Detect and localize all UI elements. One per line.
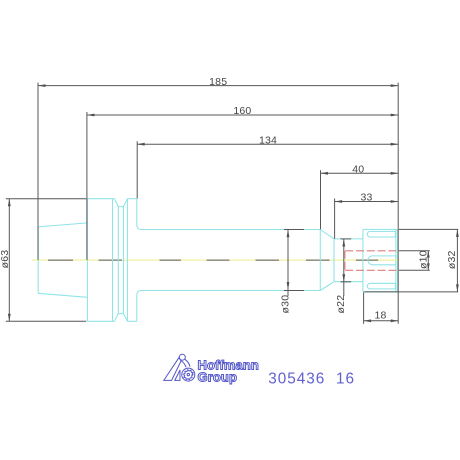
dimension 134 — [137, 135, 398, 147]
svg-text:185: 185 — [209, 76, 227, 88]
body outline: o22 neck — [334, 239, 363, 282]
dimension o10 — [399, 250, 430, 270]
body outline: flange face — [86, 199, 88, 322]
extension line 185 — [37, 83, 39, 260]
body outline: V-groove notches — [114, 199, 127, 322]
extension line 134 — [136, 141, 138, 198]
Hoffmann Group logo figure — [164, 354, 195, 381]
dimension 33 — [335, 192, 399, 204]
centerline gray dashes — [48, 259, 378, 261]
body outline: flange top and bottom edges — [87, 199, 136, 322]
body outline: cylinder o30 — [142, 230, 321, 291]
body outline: groove silhouette verticals — [113, 199, 128, 322]
svg-text:16: 16 — [336, 370, 355, 387]
dimension 40 — [321, 164, 399, 176]
extension line common right — [397, 83, 399, 324]
extension line 160 — [86, 112, 88, 260]
part number 305436 16 — [268, 370, 355, 387]
dimension o32 — [364, 229, 459, 292]
svg-text:134: 134 — [259, 135, 277, 147]
nut slot middle — [368, 256, 396, 265]
svg-text:ø10: ø10 — [417, 250, 429, 269]
dimension 18 — [364, 292, 399, 324]
body outline: cone to o22 — [320, 230, 334, 291]
dimension 185 — [38, 76, 398, 88]
nut slot bottom — [367, 283, 395, 289]
extension line 40 — [320, 170, 322, 229]
centerline yellow — [32, 259, 399, 261]
dimension o22 — [335, 239, 351, 314]
svg-text:ø22: ø22 — [335, 295, 347, 314]
centerline in slot — [378, 259, 399, 261]
svg-text:Group: Group — [198, 369, 238, 384]
svg-text:160: 160 — [233, 105, 251, 117]
svg-text:ø63: ø63 — [0, 250, 11, 269]
dimension o30 — [280, 230, 304, 314]
dimension 160 — [87, 105, 398, 117]
extension line 33 — [334, 199, 336, 239]
svg-text:305436: 305436 — [268, 370, 325, 387]
body outline: flange right face with fillets — [137, 199, 142, 322]
svg-text:40: 40 — [352, 164, 364, 176]
svg-text:18: 18 — [374, 310, 386, 322]
body outline: HSK taper — [38, 223, 87, 297]
svg-text:33: 33 — [360, 192, 372, 204]
body outline: nut — [363, 229, 398, 291]
nut slot top — [367, 231, 395, 237]
hidden bore o10 red dashed — [345, 251, 398, 270]
svg-text:ø30: ø30 — [280, 295, 292, 314]
svg-text:ø32: ø32 — [446, 250, 458, 269]
Hoffmann Group logo text — [198, 358, 259, 385]
dimension o63 — [0, 199, 86, 322]
